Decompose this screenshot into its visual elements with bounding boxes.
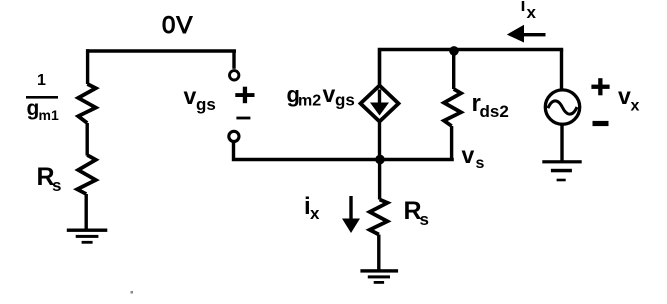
svg-text:1: 1 bbox=[37, 72, 46, 89]
sine symbol inside vx bbox=[548, 101, 577, 114]
label ix (bottom) bbox=[304, 193, 320, 223]
junction node vs (Rs tap) bbox=[375, 155, 385, 165]
resistor rds2 bbox=[444, 89, 461, 126]
svg-text:s: s bbox=[52, 176, 61, 195]
label Rs (bottom) bbox=[404, 197, 429, 229]
label Rs (left) bbox=[37, 163, 62, 195]
svg-text:g: g bbox=[27, 97, 40, 120]
wire left vertical to resistor 1/gm1 bbox=[86, 49, 89, 84]
ground (left) bbox=[67, 229, 108, 244]
svg-text:s: s bbox=[476, 155, 485, 172]
wire top-right corner down to source vx bbox=[560, 50, 563, 89]
wire Rs bottom to ground bbox=[377, 235, 380, 271]
svg-text:v: v bbox=[323, 81, 336, 107]
wire vx bottom to ground bbox=[560, 126, 563, 162]
resistor 1/gm1 bbox=[78, 84, 96, 123]
minus sign (vx polarity) bbox=[593, 121, 609, 126]
wire rds2 bottom to node vs bbox=[450, 126, 453, 160]
dependent current source gm2vgs (diamond) bbox=[361, 86, 399, 122]
ground (bottom middle) bbox=[360, 269, 398, 284]
wire vgs - terminal to bottom net vs bbox=[234, 142, 454, 160]
current arrow ix (leftward, top right) bbox=[507, 25, 546, 43]
wire top-left (0V net) bbox=[86, 49, 236, 53]
svg-text:x: x bbox=[631, 98, 640, 115]
resistor Rs (left) bbox=[77, 155, 96, 194]
scan speck bbox=[131, 291, 134, 294]
label vgs bbox=[184, 83, 216, 114]
plus sign (vgs polarity) bbox=[235, 87, 254, 104]
ground (right, under vx) bbox=[542, 160, 581, 181]
value label 1/gm1 bbox=[26, 72, 59, 123]
svg-text:gs: gs bbox=[335, 91, 355, 110]
wire node vs to resistor Rs (bottom) bbox=[378, 160, 381, 200]
value label gm2vgs bbox=[287, 81, 355, 110]
wire diamond top to top-right net bbox=[380, 50, 564, 87]
svg-text:v: v bbox=[184, 83, 197, 109]
wire rds2 top bbox=[452, 51, 455, 89]
svg-text:0V: 0V bbox=[162, 12, 193, 39]
svg-text:m1: m1 bbox=[39, 107, 59, 123]
svg-text:i: i bbox=[521, 0, 526, 15]
svg-text:v: v bbox=[618, 83, 631, 109]
resistor Rs (bottom) bbox=[370, 200, 388, 235]
voltage source vx (circle with sine) bbox=[545, 90, 579, 124]
svg-text:m2: m2 bbox=[298, 93, 321, 110]
junction top (rds2 tap) bbox=[449, 46, 459, 56]
label vx bbox=[618, 83, 640, 115]
svg-text:s: s bbox=[420, 210, 429, 229]
wire resistor Rs to ground (left) bbox=[84, 194, 87, 230]
svg-text:v: v bbox=[462, 142, 475, 168]
svg-text:x: x bbox=[310, 204, 320, 223]
node vs label bbox=[462, 142, 485, 172]
plus sign (vx polarity) bbox=[591, 78, 609, 95]
terminal vgs - (open circle) bbox=[229, 131, 239, 141]
terminal vgs + (open circle) bbox=[230, 71, 239, 80]
current arrow ix (downward) bbox=[342, 196, 360, 233]
svg-text:x: x bbox=[527, 3, 537, 22]
wire between resistors (left branch) bbox=[85, 123, 88, 156]
label ix (top right) bbox=[521, 0, 537, 22]
svg-text:gs: gs bbox=[196, 95, 216, 114]
minus sign (vgs polarity) bbox=[236, 117, 250, 120]
svg-text:ds2: ds2 bbox=[480, 102, 509, 121]
arrow inside source (downward) bbox=[370, 90, 389, 116]
wire top-left corner down to vgs + terminal bbox=[232, 51, 235, 69]
wire diamond bottom to node vs bbox=[378, 122, 381, 160]
label rds2 bbox=[472, 90, 509, 121]
